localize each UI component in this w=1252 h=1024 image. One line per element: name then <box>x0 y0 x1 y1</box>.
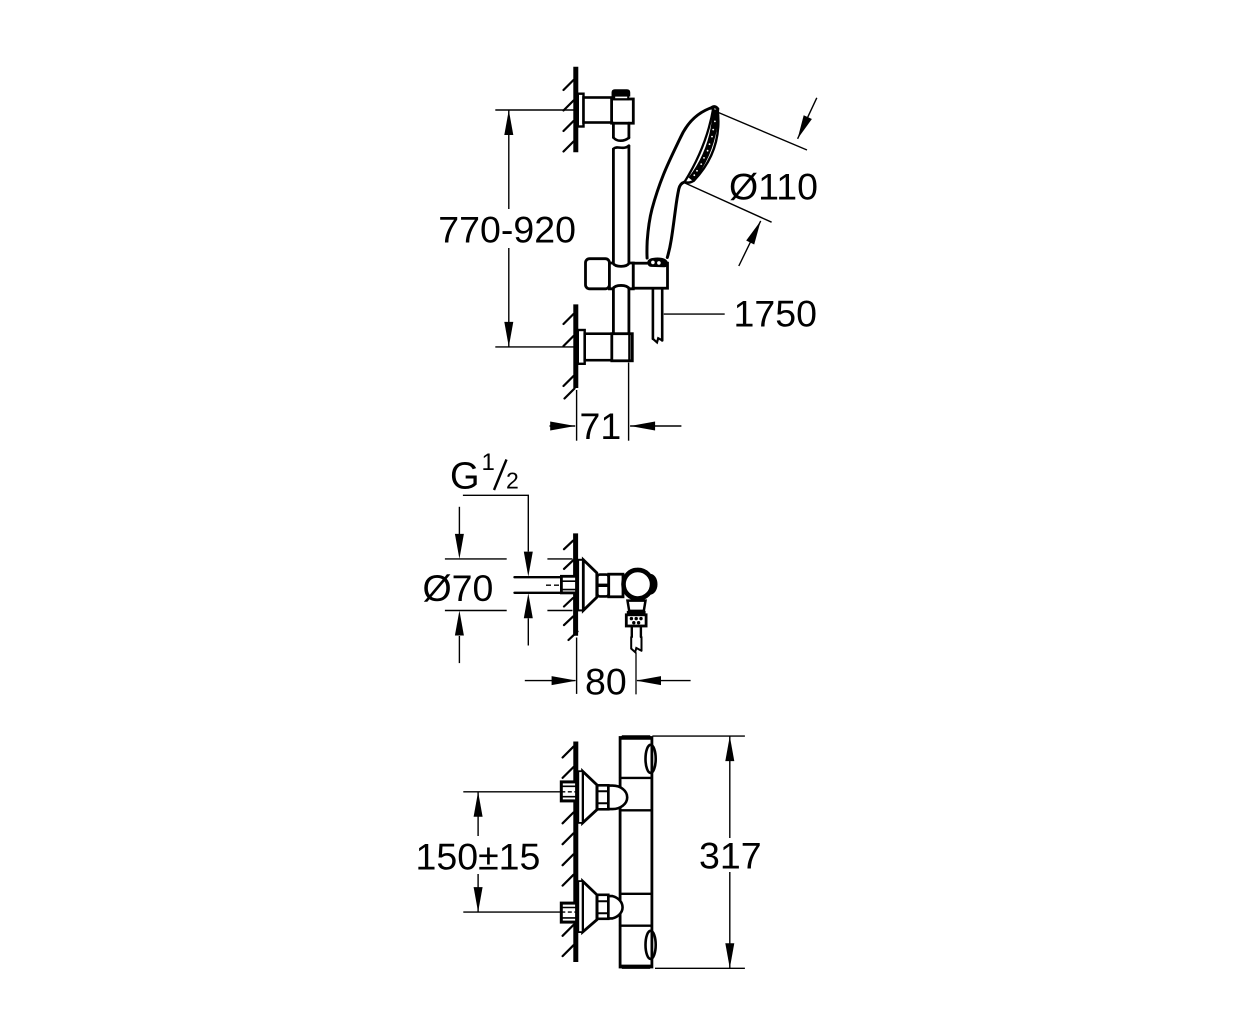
svg-text:1: 1 <box>482 449 495 476</box>
shower rail lower segment <box>613 289 629 334</box>
arrow up 770-920 <box>504 110 513 135</box>
shaft right <box>637 680 691 682</box>
knob lug right <box>643 574 658 595</box>
body bottom cap <box>620 965 652 968</box>
dim line upper <box>729 736 731 838</box>
shower hose <box>653 288 662 340</box>
D70 arrow lower <box>455 611 464 636</box>
ext top <box>652 735 745 737</box>
neck <box>628 601 646 611</box>
dim line upper <box>508 110 510 209</box>
shower rail upper segment <box>613 123 629 138</box>
shower head tip closure <box>711 107 718 109</box>
rail top cap knob <box>612 90 629 96</box>
stipple speckles <box>693 121 715 177</box>
bottom inlet cone <box>583 881 597 932</box>
union body <box>609 574 623 597</box>
top inlet cone <box>583 771 597 823</box>
svg-text:G: G <box>450 455 480 497</box>
rail edge inside bracket <box>628 334 630 361</box>
svg-text:1750: 1750 <box>734 293 817 335</box>
leader 1750 <box>664 313 725 315</box>
ext line lower <box>684 183 772 223</box>
shaft upper <box>458 507 460 534</box>
shaft lower <box>458 636 460 663</box>
arrow shaft lower <box>739 221 761 266</box>
thermostat body <box>620 738 652 968</box>
arrowhead 71 right <box>630 422 655 431</box>
body section lines <box>620 778 652 926</box>
svg-text:150±15: 150±15 <box>416 836 541 878</box>
holder middle block <box>609 263 633 289</box>
top wall mount arm <box>584 98 613 123</box>
top inlet connector <box>597 785 608 809</box>
G1/2 arrow lower shaft <box>527 618 529 645</box>
bottom rail bracket <box>612 334 633 361</box>
G1/2 nipple pipe <box>515 577 562 593</box>
dim line lower <box>477 874 479 912</box>
hose centerline <box>635 653 637 694</box>
hose end cut <box>653 338 662 342</box>
wall middle <box>573 533 578 635</box>
wall hatching middle <box>564 541 578 640</box>
dimension 71 <box>550 363 682 441</box>
svg-text:770-920: 770-920 <box>438 209 576 251</box>
handle end cap black <box>648 258 668 267</box>
hose end <box>631 637 641 652</box>
rail break wave lower <box>613 146 629 149</box>
shower head face rim line <box>685 107 714 182</box>
pipe centerline dashes <box>546 584 576 586</box>
svg-text:317: 317 <box>699 835 762 877</box>
wall bottom drawing <box>573 742 578 963</box>
shower head spray stipple band <box>691 110 716 180</box>
rail top cap neck <box>614 96 628 100</box>
ext line right <box>628 363 630 441</box>
threaded connector middle <box>597 575 608 597</box>
dimension 150+-15 <box>463 792 577 912</box>
dim line upper <box>477 792 479 836</box>
dimension D110 <box>684 98 817 266</box>
leader bottom <box>463 911 561 913</box>
arrow up 317 <box>725 736 734 761</box>
bottom inlet plate <box>578 881 582 932</box>
svg-text:80: 80 <box>585 661 627 703</box>
escutcheon plate middle <box>578 560 583 611</box>
arrowhead 71 left <box>550 422 575 431</box>
body top cap <box>620 736 652 740</box>
holder left knob <box>586 259 610 289</box>
shower rail main segment <box>613 146 629 263</box>
shower head bottom closure <box>685 181 695 183</box>
knob ellipse bottom <box>646 931 656 959</box>
wall segment top <box>573 67 578 153</box>
escutcheon cone middle <box>583 560 597 611</box>
wall segment bottom <box>573 304 578 388</box>
D70 arrow upper <box>455 534 464 559</box>
hose stub <box>632 626 641 637</box>
arrowhead 80 left <box>552 676 577 685</box>
tick top <box>495 109 573 111</box>
hand shower handle back outline <box>647 107 714 258</box>
dimension 80 <box>525 638 691 694</box>
dimension D70 <box>445 507 573 663</box>
dashes in nuts <box>561 791 577 793</box>
ext line upper <box>713 110 808 150</box>
wall hatching bottom <box>564 314 575 399</box>
holder right body <box>633 263 667 288</box>
shaft right <box>630 425 681 427</box>
top wall mount escutcheon <box>578 94 584 127</box>
wall hatching top <box>564 80 574 152</box>
arrowhead upper D110 <box>798 115 812 139</box>
arrow up 150 <box>474 792 483 817</box>
bottom wall mount escutcheon <box>578 330 585 364</box>
tick bottom <box>495 346 573 348</box>
arrowhead 80 right <box>636 676 661 685</box>
dimension 770-920 <box>495 110 573 347</box>
hose nut stippled <box>626 615 646 626</box>
hand shower handle right edge <box>667 182 684 258</box>
ext bottom <box>655 967 745 969</box>
tick upper <box>445 558 573 560</box>
G1/2 arrow upper <box>524 552 533 577</box>
ext line left <box>576 390 578 441</box>
arrow down 770-920 <box>504 322 513 347</box>
top rail bracket <box>612 99 634 123</box>
bottom inlet connector <box>597 895 608 919</box>
dimension 317 <box>652 736 745 968</box>
ext line wall <box>576 638 578 694</box>
shaft left <box>525 680 576 682</box>
wall hatching bottom drawing <box>563 747 574 956</box>
tick lower <box>445 610 573 612</box>
svg-text:2: 2 <box>506 467 519 493</box>
dim line lower <box>508 248 510 347</box>
knob circle <box>624 570 653 599</box>
G1/2 arrow lower <box>524 593 533 618</box>
shaft left <box>550 425 576 427</box>
dim line lower <box>729 872 731 968</box>
svg-text:Ø110: Ø110 <box>729 166 818 208</box>
bottom inlet nut <box>561 903 576 922</box>
arrow down 317 <box>725 943 734 968</box>
svg-text:Ø70: Ø70 <box>423 567 494 609</box>
top inlet nut <box>561 782 576 801</box>
top inlet lug <box>608 786 627 810</box>
shower head outer right edge <box>694 109 718 181</box>
label leader G1/2 <box>463 495 528 551</box>
arrow shaft upper <box>798 98 817 139</box>
knob ellipse top <box>646 745 656 773</box>
leader top <box>463 791 561 793</box>
arrow down 150 <box>474 887 483 912</box>
bottom wall mount arm <box>585 334 612 361</box>
bottom inlet lug <box>608 896 622 918</box>
svg-text:71: 71 <box>580 405 622 447</box>
black collar band <box>627 611 646 615</box>
supply hex nut <box>561 576 576 593</box>
arrowhead lower D110 <box>746 221 761 245</box>
top inlet plate <box>578 771 582 823</box>
rail break wave upper <box>613 138 629 141</box>
